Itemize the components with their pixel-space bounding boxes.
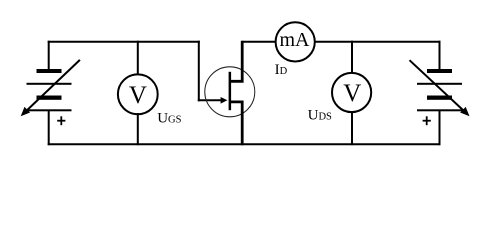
svg-text:V: V [129, 82, 147, 109]
voltmeter V1 circle [118, 74, 158, 114]
wire: right rail lower vertical [439, 110, 441, 145]
wire: left rail upper vertical [48, 41, 50, 69]
wire: bottom rail [48, 143, 441, 145]
wire: UGS meter top vertical [137, 41, 139, 76]
ammeter A1 circle [276, 22, 315, 61]
battery B2 plus label [423, 116, 431, 125]
svg-text:V: V [343, 80, 361, 107]
wire: top-left rail [48, 41, 200, 43]
battery B1 plate thin bottom [27, 109, 72, 111]
transistor Q1 gate arrowhead [221, 97, 228, 104]
wire: left rail lower vertical [48, 110, 50, 145]
transistor Q1 channel bar [229, 72, 232, 110]
wire: UDS meter bottom vertical [351, 111, 353, 145]
battery B2 plate thin upper [417, 83, 462, 85]
transistor Q1 source lead [230, 102, 243, 145]
battery B1 adjustment arrow [21, 60, 80, 116]
wire: top-right rail right segment [315, 41, 441, 43]
wire: top-right rail left segment [242, 41, 276, 43]
battery B2 plate thin bottom [417, 109, 462, 111]
voltmeter V2 circle [332, 73, 371, 112]
battery B2 adjustment arrow [410, 60, 470, 116]
svg-text:mA: mA [280, 29, 311, 51]
wire: gate horizontal [198, 99, 222, 101]
wire: UDS meter top vertical [351, 41, 353, 74]
battery B1 plate thick top [37, 69, 62, 73]
battery B1 plus label [57, 116, 65, 125]
transistor Q1 drain lead [230, 41, 243, 82]
battery B2 plate thick lower [427, 96, 452, 100]
wire: UGS meter bottom vertical [137, 113, 139, 145]
battery B1 plate thick lower [37, 96, 62, 100]
transistor Q1 circle [205, 67, 255, 117]
wire: right rail upper vertical [439, 41, 441, 69]
wire: gate vertical from top rail [198, 41, 200, 102]
battery B2 plate thick top [427, 69, 452, 73]
battery B1 plate thin upper [27, 83, 72, 85]
